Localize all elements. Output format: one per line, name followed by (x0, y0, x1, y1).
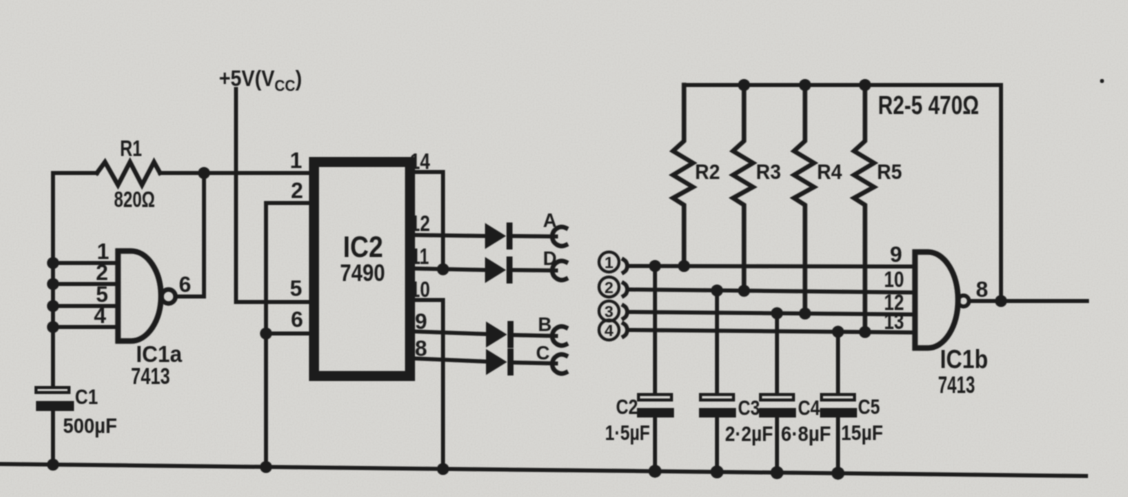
node 4 plug arc (624, 324, 628, 337)
capacitor C5 top plate (822, 395, 855, 401)
node dot line4 C5 (832, 326, 844, 338)
node dot C1 ground (47, 459, 59, 471)
svg-text:C2: C2 (616, 396, 638, 419)
capacitor C5 bottom plate (820, 408, 857, 418)
resistor R3 (733, 85, 753, 291)
svg-text:A: A (543, 211, 557, 232)
node dot line1 C2 (649, 260, 661, 272)
svg-text:R3: R3 (756, 161, 781, 184)
node dot pin6 junction (260, 328, 272, 340)
svg-text:C5: C5 (858, 396, 880, 419)
node dot C2 ground (649, 465, 662, 478)
node dot rail R5 (859, 79, 871, 91)
svg-text:4: 4 (605, 323, 614, 340)
svg-text:B: B (538, 315, 552, 336)
wire bottom ground rail (0, 464, 1086, 476)
svg-text:8: 8 (415, 336, 427, 361)
wire left vertical input bus (51, 173, 55, 466)
node dot input 4 (47, 321, 59, 333)
node 2 circle (599, 277, 619, 297)
svg-text:2: 2 (291, 178, 303, 203)
node dot C5 ground (832, 467, 845, 480)
wire IC1a input 5 (53, 304, 118, 308)
resistor R4 (794, 85, 814, 314)
svg-text:4: 4 (94, 303, 107, 328)
socket B (552, 327, 566, 346)
wire IC1a input 1 (53, 261, 118, 265)
wire line 1 to IC1b pin 9 (631, 264, 915, 269)
wire IC2 pin 11 lead (415, 269, 484, 271)
svg-text:C: C (536, 344, 550, 365)
socket A (552, 227, 566, 246)
node dot line4 R5 (859, 326, 871, 338)
wire C4 vertical (775, 313, 779, 473)
power +5V supply lead (234, 89, 238, 302)
wire IC2 pin 2 down to ground (266, 203, 309, 468)
capacitor C2 top plate (639, 395, 672, 401)
diode C (486, 349, 507, 375)
svg-text:11: 11 (411, 244, 429, 269)
capacitor C3 bottom plate (699, 408, 736, 418)
svg-text:10: 10 (884, 267, 904, 292)
wire C2 vertical (653, 266, 657, 472)
node 2 plug arc (624, 283, 628, 296)
diode D (485, 257, 506, 283)
node 1 plug arc (624, 260, 628, 273)
wire IC2 pin 14 to pin 11 (415, 172, 443, 269)
wire IC2 pin 10 to ground (415, 300, 443, 470)
svg-text:10: 10 (410, 277, 430, 302)
NAND gate IC1a (7413) body (118, 251, 161, 341)
node dot C4 ground (771, 466, 784, 479)
wire line 2 to IC1b pin 10 (631, 290, 915, 293)
svg-text:C1: C1 (75, 386, 98, 409)
IC1a output bubble (162, 290, 176, 304)
IC1b output bubble (958, 296, 969, 307)
svg-text:12: 12 (410, 211, 430, 236)
svg-text:6·8µF: 6·8µF (781, 423, 831, 446)
wire C3 vertical (715, 291, 719, 474)
svg-text:8: 8 (976, 277, 988, 302)
node 3 plug arc (624, 306, 628, 319)
node dot pin10 ground (437, 463, 449, 475)
svg-text:9: 9 (415, 309, 427, 334)
svg-text:R5: R5 (877, 161, 902, 184)
node dot rail R3 (738, 79, 750, 91)
node dot line2 C3 (711, 285, 723, 297)
svg-text:5: 5 (290, 276, 302, 301)
capacitor C1 top plate (36, 388, 69, 393)
svg-text:14: 14 (410, 149, 431, 174)
svg-text:13: 13 (884, 309, 904, 334)
wire IC2 pin 5 to +5V (236, 300, 309, 304)
node dot input 2 (47, 278, 59, 290)
node dot input 5 (47, 300, 59, 312)
capacitor C3 top plate (701, 395, 734, 401)
svg-text:R2-5 470Ω: R2-5 470Ω (878, 90, 979, 120)
svg-text:6: 6 (291, 307, 303, 332)
svg-text:1: 1 (605, 255, 614, 272)
svg-text:3: 3 (605, 304, 614, 321)
speck artifact (1100, 79, 1104, 83)
node dot input 1 (47, 257, 59, 269)
node 4 circle (599, 320, 619, 340)
wire IC2 pin 6 (266, 332, 309, 336)
wire IC2 pin 9 lead (415, 332, 486, 335)
svg-text:C3: C3 (738, 397, 760, 420)
wire IC1b output pin 8 (971, 299, 1087, 303)
diode A (485, 223, 506, 249)
resistor R1 (97, 162, 160, 185)
node dot line3 R4 (799, 308, 811, 320)
svg-text:1: 1 (290, 148, 302, 173)
node 3 circle (599, 301, 619, 321)
node dot rail R4 (799, 79, 811, 91)
diode B (486, 322, 507, 348)
socket C (552, 354, 566, 373)
node 1 circle (599, 252, 619, 272)
wire diode A to socket A (512, 234, 556, 239)
svg-text:820Ω: 820Ω (114, 187, 155, 212)
node dot line3 C4 (771, 307, 783, 319)
wire R1 right lead to IC2 pin 1 (160, 171, 309, 175)
wire diode D to socket D (512, 268, 556, 273)
node dot output pull-up (995, 295, 1007, 307)
node dot C3 ground (711, 465, 724, 478)
svg-text:6: 6 (179, 272, 191, 297)
node dot pin2/6 ground (260, 461, 272, 473)
node dot pin14-pin11 (437, 263, 449, 275)
svg-text:R4: R4 (817, 161, 842, 184)
resistor R5 (854, 85, 874, 332)
capacitor C2 bottom plate (637, 408, 674, 418)
IC2 7490 package outline (314, 162, 410, 376)
svg-text:15µF: 15µF (841, 422, 883, 445)
wire R1 left lead (53, 171, 97, 175)
svg-text:D: D (543, 249, 557, 270)
svg-text:9: 9 (890, 242, 902, 267)
svg-text:7413: 7413 (938, 372, 975, 399)
node dot R1-IC1a feedback (198, 167, 210, 179)
wire line 4 to IC1b pin 13 (631, 330, 915, 333)
svg-text:2: 2 (605, 280, 614, 297)
node dot line1 R2 (678, 260, 690, 272)
wire diode C to socket C (514, 363, 556, 364)
wire C5 vertical (836, 332, 840, 474)
node dot line2 R3 (738, 285, 750, 297)
wire IC1a feedback from output to R1 junction (176, 173, 204, 297)
svg-text:1·5µF: 1·5µF (605, 422, 650, 445)
svg-text:C4: C4 (798, 397, 820, 420)
wire diode B to socket B (514, 335, 556, 336)
NAND gate IC1b (7413) body (915, 252, 958, 348)
svg-text:2·2µF: 2·2µF (725, 423, 773, 446)
svg-text:500µF: 500µF (63, 415, 117, 438)
capacitor C4 bottom plate (759, 408, 796, 418)
svg-text:7490: 7490 (340, 260, 385, 287)
svg-text:IC1b: IC1b (940, 344, 988, 374)
svg-text:7413: 7413 (131, 363, 170, 389)
wire top pull-up rail (684, 85, 1001, 301)
wire IC1a input 4 (53, 325, 118, 329)
svg-text:R2: R2 (695, 161, 720, 184)
resistor R2 (673, 85, 693, 266)
svg-text:R1: R1 (120, 136, 142, 161)
wire IC2 pin 12 lead (415, 235, 484, 236)
socket D (552, 261, 566, 280)
wire IC1a input 2 (53, 282, 118, 286)
capacitor C4 top plate (761, 395, 794, 401)
capacitor C1 bottom plate (36, 401, 74, 411)
wire IC2 pin 8 lead (415, 359, 486, 362)
wire line 3 to IC1b pin 12 (631, 312, 915, 315)
